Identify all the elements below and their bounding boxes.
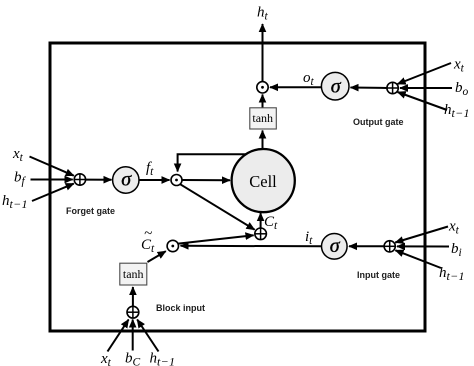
svg-text:xt: xt: [453, 57, 465, 75]
svg-text:Forget gate: Forget gate: [66, 206, 115, 216]
svg-text:Block input: Block input: [156, 303, 205, 313]
svg-text:σ: σ: [121, 168, 132, 190]
svg-text:tanh: tanh: [252, 111, 273, 125]
svg-text:ht−1: ht−1: [2, 193, 28, 211]
svg-text:ot: ot: [303, 70, 315, 88]
svg-text:bC: bC: [125, 351, 141, 366]
svg-text:ht−1: ht−1: [444, 102, 470, 120]
svg-text:Cell: Cell: [249, 172, 277, 191]
svg-text:xt: xt: [100, 351, 112, 366]
svg-text:~: ~: [144, 226, 152, 242]
svg-text:σ: σ: [330, 235, 341, 257]
svg-text:tanh: tanh: [123, 267, 144, 281]
svg-text:Ct: Ct: [264, 214, 278, 232]
svg-text:ht−1: ht−1: [150, 351, 176, 366]
svg-text:bi: bi: [451, 241, 462, 259]
svg-text:Output gate: Output gate: [353, 117, 404, 127]
svg-text:it: it: [305, 229, 313, 247]
svg-text:xt: xt: [448, 219, 460, 237]
svg-text:σ: σ: [331, 76, 342, 98]
svg-text:xt: xt: [12, 146, 24, 164]
svg-text:bo: bo: [455, 80, 469, 98]
svg-text:bf: bf: [14, 170, 27, 188]
svg-text:ht−1: ht−1: [439, 265, 465, 283]
svg-text:ft: ft: [146, 160, 154, 178]
svg-text:ht: ht: [257, 5, 269, 23]
svg-text:Input gate: Input gate: [357, 270, 400, 280]
